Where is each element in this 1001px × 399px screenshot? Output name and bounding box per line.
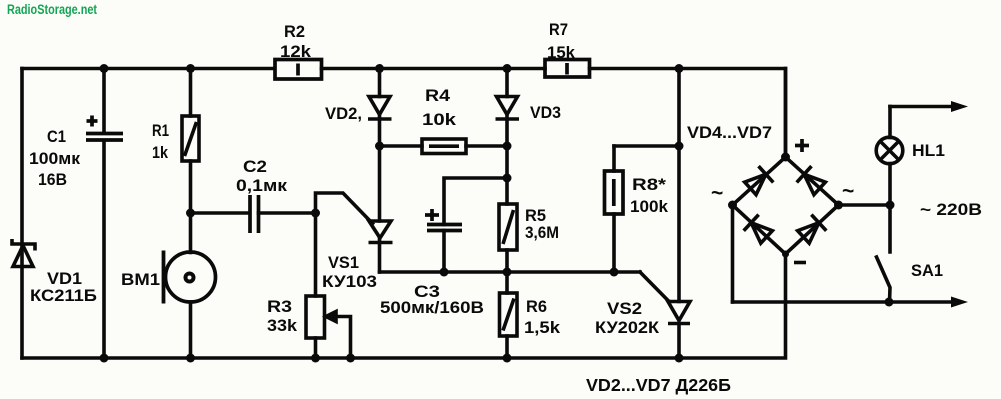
svg-text:100мк: 100мк	[29, 149, 81, 168]
node switch bottom	[885, 298, 894, 307]
wire VD3 node to R5	[505, 146, 509, 204]
svg-text:33k: 33k	[267, 316, 298, 335]
bridge plus sign	[795, 139, 809, 152]
wire top rail right of R2	[322, 67, 546, 71]
resistor R8	[605, 171, 624, 214]
svg-text:RadioStorage.net: RadioStorage.net	[7, 2, 97, 17]
wire lamp branch upper	[888, 107, 892, 138]
svg-text:VD2,: VD2,	[325, 104, 362, 123]
capacitor C3	[425, 209, 462, 231]
svg-text:R1: R1	[152, 121, 169, 140]
wire bridge diamond	[733, 157, 839, 254]
svg-text:R3: R3	[267, 297, 292, 316]
wire VD3 branch top	[505, 69, 509, 97]
svg-text:R6: R6	[526, 297, 547, 316]
wire C1 branch top	[102, 69, 106, 134]
wire R6 bottom lead	[505, 336, 509, 358]
svg-text:~ 220В: ~ 220В	[920, 200, 982, 219]
wire R5 bottom lead	[505, 250, 509, 293]
node bottom BM1	[186, 354, 195, 363]
wire VS1 gate riser	[316, 193, 373, 224]
lamp HL1	[876, 137, 903, 164]
wire VD2 branch top	[378, 69, 382, 97]
node bridge left	[728, 201, 737, 210]
svg-text:C2: C2	[243, 157, 267, 176]
capacitor C1	[86, 116, 123, 141]
diode VD2	[368, 97, 392, 120]
svg-text:R7: R7	[549, 20, 568, 39]
wire output top rail	[890, 105, 955, 109]
node bridge top	[781, 153, 790, 162]
node bottom R3 wiper	[346, 354, 355, 363]
wire R8 top link	[614, 144, 679, 148]
arrow output bottom	[951, 297, 968, 308]
svg-text:КС211Б: КС211Б	[30, 286, 97, 305]
node bridge bottom	[782, 251, 789, 258]
bridge minus sign	[794, 261, 806, 265]
wire VS2 cathode lead	[677, 324, 681, 359]
node bottom R6	[503, 354, 512, 363]
svg-text:R4: R4	[425, 86, 451, 105]
svg-text:16В: 16В	[38, 170, 67, 189]
wire R1 top lead	[189, 69, 193, 117]
thyristor VS1	[369, 221, 393, 243]
resistor R2	[275, 60, 322, 80]
svg-text:12k: 12k	[280, 42, 312, 61]
svg-text:1k: 1k	[152, 143, 168, 162]
node R8 link	[675, 142, 684, 151]
node C3 bottom	[440, 268, 449, 277]
bridge diode VD6 bottom-left	[744, 215, 774, 245]
resistor R4	[422, 139, 466, 154]
wire BM1 top lead	[189, 213, 193, 253]
wire bridge top lead	[784, 69, 788, 158]
thyristor VS2	[668, 302, 690, 324]
wire C2 left lead	[191, 211, 250, 215]
svg-text:1,5k: 1,5k	[524, 318, 561, 337]
zener diode VD1	[12, 239, 35, 267]
wire R4 node to VS1 anode	[378, 146, 382, 221]
svg-text:VD2...VD7 Д226Б: VD2...VD7 Д226Б	[586, 375, 731, 395]
wire C1 branch bottom	[102, 141, 106, 359]
wire R3 bottom lead	[314, 338, 318, 358]
wire top rail	[22, 67, 275, 71]
switch SA1 lever	[877, 257, 891, 302]
node top VD2	[375, 64, 384, 73]
svg-text:10k: 10k	[422, 110, 457, 129]
svg-text:~: ~	[842, 180, 854, 203]
node top VD3	[503, 64, 512, 73]
wire C2 right lead to gate node	[259, 211, 316, 215]
node bottom R3	[311, 354, 320, 363]
wire VD2 to R4 node	[378, 115, 382, 147]
wire R3 wiper to bottom rail	[334, 317, 351, 359]
bridge diode VD4 top-left	[743, 166, 773, 196]
resistor R1	[182, 116, 199, 161]
svg-text:HL1: HL1	[912, 141, 945, 160]
wire bridge right to lamp line	[839, 203, 891, 207]
wire R1 bottom lead to C2 node	[189, 161, 193, 213]
wire lamp to switch	[888, 164, 892, 253]
svg-text:ВМ1: ВМ1	[121, 270, 160, 289]
svg-text:3,6М: 3,6М	[525, 223, 559, 242]
svg-text:VS1: VS1	[328, 253, 359, 272]
wire VD3 to R4 node	[505, 115, 509, 147]
bridge diode VD5 top-right	[797, 166, 827, 196]
node R4 right	[503, 142, 512, 151]
wire C3 riser	[444, 178, 507, 225]
node top VS2 branch	[675, 64, 684, 73]
svg-text:КУ103: КУ103	[322, 272, 377, 291]
resistor R5	[499, 204, 517, 250]
node bottom VS2	[675, 354, 684, 363]
node R4 left	[375, 142, 384, 151]
wire R4 right lead	[466, 144, 507, 148]
wire top rail right of R7	[590, 69, 786, 158]
wire BM1 bottom lead	[189, 302, 193, 358]
potentiometer R3	[306, 296, 336, 338]
wire output bottom rail	[733, 300, 956, 304]
wire gate node to R3	[314, 213, 318, 296]
resistor R7	[545, 60, 590, 78]
arrow output top	[951, 101, 968, 112]
svg-text:SA1: SA1	[911, 261, 943, 280]
wire VS1 cathode lead	[378, 238, 382, 272]
svg-text:VD3: VD3	[530, 103, 561, 122]
svg-text:0,1мк: 0,1мк	[236, 176, 288, 195]
capacitor C2	[250, 195, 259, 233]
wire left vertical	[20, 69, 24, 359]
node R8 bottom	[610, 268, 619, 277]
svg-text:500мк/160В: 500мк/160В	[380, 298, 484, 317]
node C2/R1	[186, 209, 195, 218]
microphone BM1	[164, 251, 216, 304]
wire R4 left lead	[380, 144, 423, 148]
node lamp line	[886, 201, 895, 210]
svg-text:КУ202К: КУ202К	[595, 318, 660, 337]
node gate/R3	[311, 209, 320, 218]
wire R8 bottom lead	[612, 214, 616, 272]
node R5/R6	[503, 268, 512, 277]
svg-text:C1: C1	[47, 127, 66, 146]
svg-text:~: ~	[711, 182, 723, 205]
resistor R6	[500, 293, 518, 336]
node top R1	[186, 64, 195, 73]
svg-text:R8*: R8*	[632, 175, 666, 194]
wire R8 top lead	[612, 146, 616, 171]
node bottom C1	[100, 354, 109, 363]
svg-text:100k: 100k	[630, 197, 669, 216]
diode VD3	[496, 97, 520, 120]
node top C1	[100, 64, 109, 73]
bridge diode VD7 bottom-right	[796, 215, 826, 245]
wire VS2 branch vertical	[677, 69, 681, 302]
wire bridge left output down	[731, 205, 735, 302]
svg-text:R2: R2	[284, 22, 305, 41]
wire C3 bottom lead	[442, 231, 446, 273]
wire VS2 gate diagonal	[640, 272, 669, 302]
wire bottom rail	[22, 254, 786, 358]
svg-text:15k: 15k	[547, 43, 576, 62]
svg-text:VD4...VD7: VD4...VD7	[687, 123, 772, 142]
node C3 riser	[503, 174, 512, 183]
node bridge right	[834, 201, 843, 210]
svg-text:VS2: VS2	[607, 299, 642, 318]
wire cathode rail y272	[380, 270, 641, 274]
